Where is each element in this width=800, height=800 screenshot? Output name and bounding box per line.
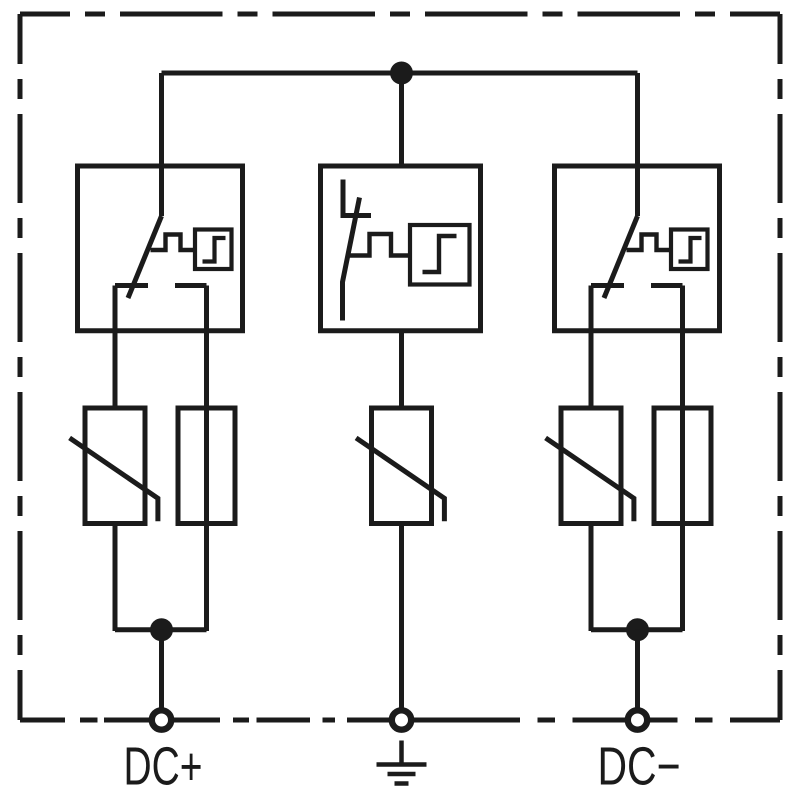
wire middle box to varistor (399, 331, 404, 411)
step glyph U3 (679, 238, 702, 262)
wire U3 right contact through fuse to bottom (680, 286, 685, 632)
varistor RV1 (DC+ branch) (70, 408, 158, 524)
svg-text:DC+: DC+ (124, 737, 203, 797)
fuse F1 (DC+ branch) (178, 408, 235, 524)
wire U3 left contact to varistor (589, 286, 594, 411)
disconnector box U3 (DC- branch) (555, 166, 720, 331)
contact bar left U1 (115, 283, 148, 288)
wire U1 left contact to varistor (113, 286, 118, 411)
terminal DC+ (152, 710, 171, 729)
wire right branch from bus into box to blade pivot (635, 73, 640, 216)
step glyph U1 (203, 238, 226, 262)
varistor RV3 (DC- branch) (546, 408, 634, 524)
wire left branch from bus into box to blade pivot (159, 73, 164, 216)
enclosure dash-dot border left (18, 14, 23, 720)
wire below varistor RV2 to terminal (399, 524, 404, 713)
node bottom junction DC- (626, 618, 649, 641)
enclosure dash-dot border bottom (20, 718, 780, 723)
wire bottom tie DC+ branch (115, 627, 207, 632)
signal pulse link U1 (151, 235, 196, 251)
top contact stem U2 (341, 180, 346, 218)
ground symbol (377, 741, 427, 784)
signal pulse link U2 (348, 234, 411, 256)
status indicator box U2 (410, 225, 470, 285)
svg-text:DC−: DC− (598, 737, 681, 797)
varistor RV2 (middle branch) (356, 408, 444, 524)
node top junction (390, 62, 413, 85)
wire middle branch from bus to box top (399, 73, 404, 166)
contact bar right U3 (651, 283, 683, 288)
wire below varistor RV1 (113, 524, 118, 632)
wire bottom tie DC- branch (591, 627, 683, 632)
enclosure dash-dot border right (778, 14, 783, 720)
contact bar right U1 (175, 283, 207, 288)
signal pulse link U3 (627, 235, 672, 251)
enclosure dash-dot border top (20, 12, 780, 17)
status indicator box U3 (671, 230, 708, 270)
step glyph U2 (423, 236, 457, 272)
fuse F2 (DC- branch) (654, 408, 711, 524)
node bottom junction DC+ (150, 618, 173, 641)
wire U1 right contact through fuse to bottom (204, 286, 209, 632)
disconnector box U1 (DC+ branch) (78, 166, 243, 331)
terminal earth (392, 710, 411, 729)
wire top bus (162, 71, 638, 76)
wire DC- junction to terminal (635, 630, 640, 712)
terminal DC- (628, 710, 647, 729)
switch blade U2 (343, 198, 360, 321)
switch blade U3 (604, 216, 638, 298)
status indicator box U1 (195, 230, 232, 270)
top contact foot U2 (341, 213, 372, 218)
disconnector box U2 (middle branch) (321, 166, 481, 331)
switch blade U1 (128, 216, 162, 298)
wire DC+ junction to terminal (159, 630, 164, 712)
contact bar left U3 (591, 283, 624, 288)
wire below varistor RV3 (589, 524, 594, 632)
